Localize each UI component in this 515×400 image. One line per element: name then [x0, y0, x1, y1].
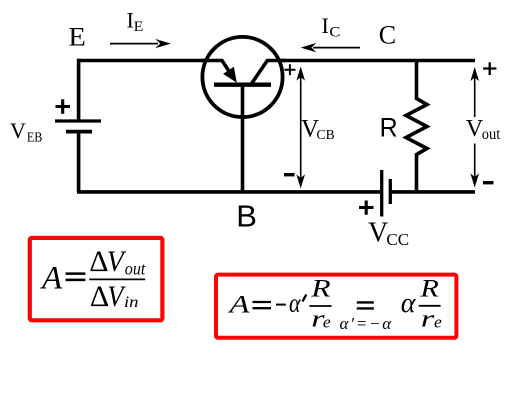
svg-text:E: E [68, 22, 85, 51]
svg-text:CB: CB [317, 127, 335, 142]
svg-text:EB: EB [27, 131, 43, 146]
eq2 fraction 2 bar [419, 305, 441, 307]
battery VEB negative plate [66, 130, 92, 134]
VCB measurement arrow (double headed) [300, 76, 302, 179]
transistor Q1 circle [202, 37, 282, 117]
transistor Q1 emitter arrowhead [223, 67, 237, 83]
svg-text:B: B [236, 199, 257, 234]
wire: left vertical lower segment [77, 134, 81, 192]
eq2 prime mark [303, 295, 307, 302]
resistor R zigzag [406, 61, 427, 192]
svg-text:in: in [124, 294, 139, 311]
eq1 equals sign [66, 274, 86, 280]
red equation box 2 [216, 275, 456, 338]
svg-text:Δ: Δ [89, 245, 108, 278]
transistor Q1 collector lead inside circle [251, 61, 285, 85]
svg-text:V: V [368, 218, 388, 249]
wire: bottom rail left of VCC battery [77, 190, 380, 194]
svg-text:CC: CC [386, 230, 409, 249]
eq2 first equals sign [253, 302, 272, 308]
transistor Q1 emitter lead inside circle [201, 61, 232, 76]
equation 1: A = dVout/dVin [40, 245, 146, 313]
wire: bottom rail right of VCC battery [391, 190, 476, 194]
svg-text:A: A [227, 292, 251, 319]
svg-text:out: out [482, 126, 501, 143]
eq1 fraction bar [89, 278, 145, 280]
svg-text:V: V [10, 118, 26, 143]
minus sign of Vout [483, 181, 494, 184]
wire: left vertical upper segment [77, 59, 81, 120]
red equation box 1 [30, 238, 163, 320]
battery VCC positive plate (long) [380, 170, 383, 217]
svg-text:out: out [125, 259, 146, 279]
eq2 second equals sign [357, 302, 374, 308]
battery VEB positive plate [55, 119, 101, 122]
eq2 fraction 1 bar [309, 305, 331, 307]
svg-text:α: α [401, 288, 417, 319]
battery VCC negative plate (short) [389, 179, 392, 204]
minus sign of VCB [284, 173, 295, 176]
svg-text:e: e [434, 313, 442, 332]
equation 2: A = -alpha' R/re = alpha R/re [227, 275, 442, 333]
transistor Q1 base bar [214, 82, 271, 86]
Vout measurement arrow upper [474, 76, 476, 117]
svg-text:α′=−α: α′=−α [340, 314, 394, 333]
current IE arrow [110, 43, 158, 45]
svg-text:I: I [322, 13, 329, 38]
wire: top rail from E node to C node [77, 59, 475, 63]
svg-text:C: C [329, 25, 340, 41]
svg-text:E: E [134, 19, 144, 35]
svg-text:C: C [379, 21, 396, 50]
svg-text:α: α [289, 289, 302, 318]
svg-text:Δ: Δ [90, 280, 109, 313]
current IC arrow [313, 47, 360, 49]
eq2 minus sign [276, 304, 286, 306]
plus sign of Vout [483, 62, 496, 75]
svg-text:R: R [419, 275, 439, 302]
plus sign of VEB [56, 99, 71, 113]
plus sign of VCC [359, 201, 374, 215]
svg-text:A: A [40, 261, 63, 297]
transistor Q1 base lead wire down to bottom rail [241, 85, 245, 192]
svg-text:R: R [310, 276, 331, 303]
plus sign of VCB [284, 64, 295, 75]
svg-text:R: R [380, 112, 398, 142]
svg-text:e: e [323, 313, 331, 332]
Vout measurement arrow lower [474, 144, 476, 179]
